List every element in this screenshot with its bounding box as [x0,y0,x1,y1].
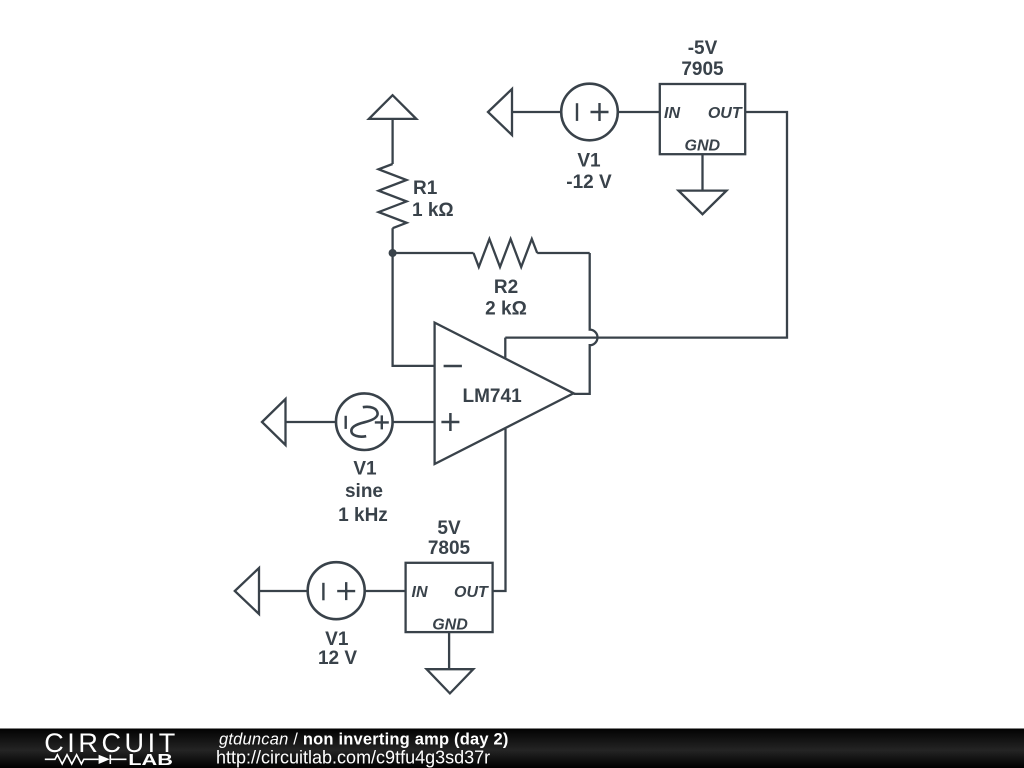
resistor R1 [379,164,407,228]
wire [393,421,435,423]
ground [427,669,474,693]
svg-text:7805: 7805 [428,538,471,559]
voltage source V1 12V [308,562,365,619]
ground wire [701,154,703,190]
svg-text:OUT: OUT [708,105,743,122]
svg-text:http://circuitlab.com/c9tfu4g3: http://circuitlab.com/c9tfu4g3sd37r [216,748,490,768]
svg-text:12 V: 12 V [318,648,357,669]
wire [512,111,562,113]
svg-text:sine: sine [345,481,383,502]
regulator 7805 [406,563,493,632]
wire [259,590,308,592]
svg-text:GND: GND [685,138,721,155]
wire [365,590,406,592]
footer bar [0,729,1024,768]
svg-text:1 kHz: 1 kHz [338,505,388,526]
node flag arrow (up) [369,95,416,119]
wire [391,228,393,253]
node junction [389,249,397,257]
voltage source V1 -12V [561,84,618,141]
svg-text:V1: V1 [353,459,377,480]
node flag arrow (left) V1 12V [235,568,259,614]
svg-text:gtduncan / non inverting amp (: gtduncan / non inverting amp (day 2) [219,731,509,749]
op-amp minus input symbol [444,365,462,368]
svg-text:IN: IN [412,584,428,601]
node flag arrow (left) V1 sine [262,399,286,445]
svg-text:R2: R2 [494,277,518,298]
ground wire [448,632,450,669]
svg-text:IN: IN [664,105,680,122]
svg-text:LAB: LAB [128,752,173,768]
svg-text:5V: 5V [437,518,461,539]
power rail wire [505,112,787,338]
resistor R2 [474,239,538,267]
regulator 7905 [660,84,745,154]
svg-text:2 kΩ: 2 kΩ [485,298,527,319]
svg-text:OUT: OUT [454,584,489,601]
op-amp V- power pin wire [493,429,506,591]
wire [537,252,590,254]
svg-text:1 kΩ: 1 kΩ [412,200,454,221]
svg-text:GND: GND [432,616,468,633]
svg-text:R1: R1 [413,178,438,199]
op-amp U1 triangle [435,323,574,464]
svg-text:7905: 7905 [681,59,724,80]
svg-text:-5V: -5V [688,38,718,59]
wire with hop [574,253,598,394]
wire [393,252,474,254]
wire [391,119,393,164]
node flag arrow (left) V1 -12V [488,89,512,135]
CircuitLab logo resistor-diode glyph [45,755,127,764]
svg-text:-12 V: -12 V [566,172,612,193]
svg-text:LM741: LM741 [463,386,523,407]
wire [393,253,435,366]
wire [286,421,337,423]
op-amp plus input symbol [441,413,459,431]
ground [679,191,727,215]
svg-text:V1: V1 [325,629,349,650]
voltage source V1 sine [336,393,393,450]
svg-text:V1: V1 [577,150,601,171]
op-amp V+ power pin [504,338,506,358]
wire [618,111,660,113]
